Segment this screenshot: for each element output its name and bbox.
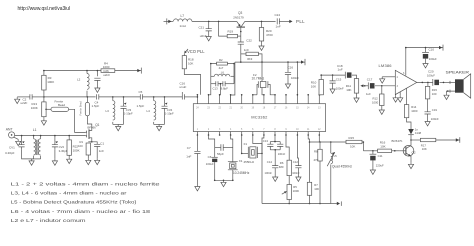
node rail terminal bbox=[140, 68, 142, 74]
svg-text:L1: L1 bbox=[33, 128, 37, 132]
trimmer CV1 bbox=[21, 136, 23, 142]
svg-text:680: 680 bbox=[279, 165, 284, 169]
capacitor C22 bbox=[240, 36, 242, 42]
svg-text:100K: 100K bbox=[293, 189, 300, 193]
svg-text:R8: R8 bbox=[314, 149, 318, 153]
ground bbox=[221, 180, 226, 186]
ground bbox=[41, 119, 46, 125]
svg-text:Q3: Q3 bbox=[238, 11, 242, 15]
svg-text:C14: C14 bbox=[267, 160, 273, 164]
wire pin7 long drop bbox=[262, 135, 264, 204]
wire B+ rail left bbox=[44, 70, 101, 72]
svg-text:1-10pF: 1-10pF bbox=[124, 111, 133, 115]
svg-text:100nF: 100nF bbox=[431, 117, 439, 121]
svg-text:4u7: 4u7 bbox=[219, 66, 224, 70]
capacitor C26 bbox=[96, 71, 98, 77]
resistor R9 bbox=[318, 135, 321, 149]
wire supply rail top bbox=[406, 47, 443, 49]
ground bbox=[370, 168, 375, 174]
capacitor C16b coupling bbox=[182, 94, 184, 99]
svg-text:1uF: 1uF bbox=[366, 92, 371, 96]
capacitor C6 bbox=[212, 156, 218, 158]
wire bbox=[192, 20, 237, 22]
resistor R2 bbox=[217, 62, 228, 65]
svg-text:1000: 1000 bbox=[103, 65, 110, 69]
node PLL out bbox=[289, 20, 292, 23]
capacitor C5 bbox=[140, 94, 142, 99]
svg-text:10K: 10K bbox=[188, 62, 193, 66]
svg-text:BF966: BF966 bbox=[88, 125, 97, 129]
ground bbox=[398, 96, 403, 102]
capacitor C8 56pF bbox=[215, 147, 221, 149]
wire bead to gate2 bbox=[69, 109, 86, 132]
wire pin stub top 24 bbox=[196, 95, 198, 104]
svg-text:100nF: 100nF bbox=[292, 171, 300, 175]
wire tank rail bbox=[99, 96, 141, 98]
wire squelch line bbox=[310, 141, 347, 143]
svg-text:100nF: 100nF bbox=[336, 86, 344, 90]
wire collector out bbox=[245, 20, 276, 22]
quad coil L5 bbox=[330, 142, 332, 153]
wire pin stub bottom 2 bbox=[208, 132, 210, 136]
ground bbox=[15, 97, 20, 103]
svg-text:C13: C13 bbox=[263, 139, 269, 143]
svg-text:PLL: PLL bbox=[296, 19, 305, 24]
capacitor C11 bbox=[372, 151, 374, 154]
ground bbox=[330, 87, 335, 93]
svg-text:1000: 1000 bbox=[372, 100, 379, 104]
resistor R20 bbox=[261, 21, 263, 27]
wire pin stub bottom 12 bbox=[318, 132, 320, 136]
inductor L2 choke bbox=[86, 71, 88, 74]
svg-text:L3: L3 bbox=[106, 109, 110, 113]
svg-text:3-30pF: 3-30pF bbox=[59, 149, 68, 153]
svg-text:6.8pF: 6.8pF bbox=[221, 87, 228, 91]
svg-text:100nF: 100nF bbox=[265, 171, 273, 175]
svg-text:220uF: 220uF bbox=[376, 163, 384, 167]
svg-text:L6: L6 bbox=[221, 71, 225, 75]
svg-text:1uF: 1uF bbox=[338, 68, 343, 72]
ground bbox=[285, 82, 290, 88]
svg-text:F1: F1 bbox=[244, 142, 248, 146]
wire pin stub bottom 8 bbox=[274, 132, 276, 136]
svg-text:100K: 100K bbox=[47, 80, 54, 84]
svg-text:100nF: 100nF bbox=[278, 152, 286, 156]
transistor Q1 BF966 bbox=[88, 129, 90, 139]
svg-text:C15: C15 bbox=[336, 77, 342, 81]
crystal F2 10.7MHz bbox=[253, 94, 257, 96]
svg-text:VCO PLL: VCO PLL bbox=[187, 49, 205, 54]
svg-text:Q2: Q2 bbox=[412, 150, 416, 154]
svg-text:X1: X1 bbox=[239, 159, 243, 163]
node VCO tank top wire bbox=[211, 63, 234, 65]
wire to R16 bbox=[363, 150, 377, 152]
svg-text:C24: C24 bbox=[275, 13, 281, 17]
potentiometer R5 squelch bbox=[288, 176, 290, 185]
svg-text:u22F: u22F bbox=[21, 101, 28, 105]
svg-text:LM386: LM386 bbox=[379, 63, 393, 68]
wire pin2/pin4 block bbox=[209, 135, 215, 157]
svg-text:C13: C13 bbox=[213, 87, 219, 91]
resistor R6 bbox=[286, 135, 289, 160]
resistor R21 3K3 bbox=[241, 53, 246, 55]
ferrite bead horizontal bbox=[45, 109, 47, 111]
wire pin stub bottom 3 bbox=[219, 132, 221, 136]
svg-text:1nF: 1nF bbox=[244, 48, 249, 52]
wire audio rail bbox=[321, 74, 345, 76]
svg-text:R15: R15 bbox=[349, 136, 355, 140]
wire pin stub top 14 bbox=[307, 95, 309, 104]
capacitor C17 bbox=[365, 85, 369, 87]
svg-text:4148: 4148 bbox=[415, 131, 422, 135]
svg-text:100: 100 bbox=[78, 144, 83, 148]
capacitor C14 bbox=[272, 166, 278, 168]
ground bbox=[52, 159, 57, 165]
resistor R4 bbox=[101, 69, 115, 73]
resistor R17 bbox=[411, 139, 420, 141]
op-amp U2 LM386 bbox=[395, 70, 417, 94]
crystal X1 10.245MHz bbox=[228, 162, 238, 170]
diode D1 1n4148 bbox=[408, 129, 414, 134]
svg-text:100K: 100K bbox=[73, 149, 80, 153]
node B+ terminal bbox=[164, 20, 174, 22]
trimmer CV3 bbox=[123, 103, 125, 106]
svg-text:100uF: 100uF bbox=[429, 57, 437, 61]
resistor R3 bbox=[43, 71, 45, 76]
resistor R22 bbox=[68, 136, 70, 140]
svg-text:SPEAKER: SPEAKER bbox=[446, 70, 470, 75]
capacitor C1 bbox=[92, 142, 97, 145]
wire pin stub top 17 bbox=[274, 95, 276, 104]
svg-text:1-10pF: 1-10pF bbox=[165, 111, 174, 115]
svg-text:1.5pF: 1.5pF bbox=[137, 104, 145, 108]
svg-text:1nF: 1nF bbox=[186, 155, 191, 159]
svg-text:100K: 100K bbox=[31, 106, 38, 110]
ground bbox=[296, 175, 301, 181]
wire pin stub top 15 bbox=[296, 95, 298, 104]
svg-text:56pF: 56pF bbox=[217, 152, 224, 156]
svg-text:100uF: 100uF bbox=[427, 73, 435, 77]
transistor Q3 bbox=[237, 26, 245, 28]
wire pin stub top 21 bbox=[230, 95, 232, 104]
wire pin stub bottom 7 bbox=[263, 132, 265, 136]
potentiometer R11 volume bbox=[354, 79, 358, 94]
wire pin stub bottom 9 bbox=[285, 132, 287, 136]
svg-text:455KHz: 455KHz bbox=[244, 160, 255, 164]
svg-text:100: 100 bbox=[432, 92, 437, 96]
svg-text:4700: 4700 bbox=[266, 33, 273, 37]
svg-text:3K3: 3K3 bbox=[247, 57, 253, 61]
svg-text:Quad 455KHz: Quad 455KHz bbox=[332, 164, 352, 168]
wire pin stub bottom 4 bbox=[230, 132, 232, 136]
wire pin stub bottom 11 bbox=[307, 132, 309, 136]
svg-text:C17: C17 bbox=[367, 77, 373, 81]
op-amp U1 MC3362 body bbox=[193, 104, 325, 132]
wire to pin10 bbox=[296, 62, 298, 95]
svg-text:1.5pF: 1.5pF bbox=[92, 104, 100, 108]
resistor R19 bbox=[219, 21, 228, 36]
svg-text:L4: L4 bbox=[147, 109, 151, 113]
wire pin stub top 23 bbox=[208, 95, 210, 104]
svg-text:10K: 10K bbox=[350, 145, 355, 149]
wire LM386 pin6 supply bbox=[405, 48, 407, 76]
svg-text:C6: C6 bbox=[208, 155, 212, 159]
node ANT connector bbox=[9, 132, 15, 138]
svg-text:10.7MHz: 10.7MHz bbox=[252, 77, 265, 81]
svg-text:u1uF: u1uF bbox=[180, 85, 187, 89]
svg-text:L1 - 2 + 2 voltas - 4mm diam -: L1 - 2 + 2 voltas - 4mm diam - nucleo fe… bbox=[11, 181, 161, 186]
trimmer CV2 bbox=[54, 136, 56, 142]
svg-text:C16: C16 bbox=[288, 65, 294, 69]
ground bbox=[67, 157, 72, 163]
wire pin stub top 16 bbox=[285, 95, 287, 104]
capacitor C7 bbox=[196, 135, 198, 151]
svg-text:ANT: ANT bbox=[6, 127, 13, 131]
svg-text:10K: 10K bbox=[422, 147, 427, 151]
svg-text:L2 e L7 - indutor comum: L2 e L7 - indutor comum bbox=[11, 218, 87, 223]
capacitor C24 bbox=[277, 18, 279, 24]
capacitor C12 bbox=[297, 135, 298, 166]
ground bbox=[380, 77, 385, 83]
capacitor C2 bbox=[30, 94, 32, 99]
resistor R7 bbox=[308, 135, 309, 182]
resistor R14 bbox=[406, 88, 408, 104]
svg-text:L5 - Bobina Detect Quadratura: L5 - Bobina Detect Quadratura 455KHz (To… bbox=[11, 200, 138, 205]
wire pin stub top 22 bbox=[219, 95, 221, 104]
svg-text:Ferrite Bead: Ferrite Bead bbox=[79, 101, 83, 116]
inductor L3 bbox=[112, 97, 114, 101]
capacitor C13 bbox=[211, 83, 216, 85]
ground bbox=[16, 139, 21, 145]
wire bias node line bbox=[44, 96, 96, 98]
svg-text:47K: 47K bbox=[314, 158, 319, 162]
wire pin stub bottom 10 bbox=[296, 132, 298, 136]
svg-text:1000: 1000 bbox=[411, 109, 418, 113]
wire pin stub top 13 bbox=[318, 95, 320, 104]
svg-text:u2nF: u2nF bbox=[103, 73, 110, 77]
ground bbox=[259, 44, 264, 50]
ground bbox=[206, 35, 211, 41]
svg-text:http://www.qsl.net/va3iul: http://www.qsl.net/va3iul bbox=[18, 6, 71, 12]
capacitor C20 bbox=[432, 79, 434, 86]
resistor R18 VCO bbox=[183, 54, 185, 56]
resistor R12 bbox=[381, 85, 383, 87]
wire antenna line bbox=[15, 135, 86, 137]
svg-text:6: 6 bbox=[403, 72, 405, 75]
svg-text:R2: R2 bbox=[219, 58, 223, 62]
ground bbox=[116, 124, 121, 130]
svg-text:10K: 10K bbox=[311, 84, 316, 88]
svg-text:L3, L4 - 6 voltas - 4mm diam -: L3, L4 - 6 voltas - 4mm diam - nucleo ar bbox=[11, 191, 128, 196]
wire pin stub top 20 bbox=[241, 95, 243, 104]
capacitor C19 bbox=[427, 99, 429, 112]
wire bottom rail bbox=[262, 203, 331, 205]
capacitor C15 bbox=[332, 75, 334, 81]
ground bbox=[354, 96, 359, 102]
svg-text:Bead: Bead bbox=[58, 103, 65, 107]
ground bbox=[379, 108, 384, 114]
wire LM386 pin2 ground bbox=[395, 94, 397, 95]
ground bbox=[425, 120, 430, 126]
ground bbox=[86, 158, 91, 164]
svg-text:C12: C12 bbox=[293, 160, 299, 164]
svg-text:3-30pF: 3-30pF bbox=[5, 151, 15, 155]
resistor R10 bbox=[319, 94, 321, 96]
wire LM386 pin4 ground bbox=[399, 92, 401, 96]
svg-text:R19: R19 bbox=[228, 30, 234, 34]
wire tank to pin bbox=[219, 84, 222, 95]
resistor R15b zobel bbox=[427, 82, 429, 86]
wire pin stub bottom 6 bbox=[252, 132, 254, 136]
transistor Q2 BC547b bbox=[410, 139, 412, 141]
wire tank1 ground bbox=[113, 123, 124, 125]
svg-text:L7: L7 bbox=[181, 14, 185, 18]
svg-text:L2: L2 bbox=[77, 78, 81, 82]
svg-text:L5: L5 bbox=[334, 154, 338, 158]
ground bbox=[195, 185, 200, 191]
wire tank2 ground bbox=[154, 123, 165, 125]
capacitor C21 bbox=[208, 21, 210, 28]
wire pin stub bottom 5 bbox=[241, 132, 243, 136]
svg-text:C5: C5 bbox=[139, 90, 143, 94]
svg-text:MC3362: MC3362 bbox=[251, 115, 268, 120]
svg-text:10K: 10K bbox=[380, 144, 385, 148]
ground bbox=[95, 158, 100, 164]
capacitor C10 bbox=[425, 48, 427, 53]
svg-text:Q1: Q1 bbox=[95, 123, 99, 127]
svg-text:1nF: 1nF bbox=[276, 25, 281, 29]
svg-text:10K: 10K bbox=[314, 187, 319, 191]
svg-text:100uF: 100uF bbox=[206, 162, 214, 166]
inductor L6 bbox=[211, 75, 215, 77]
svg-text:BC547b: BC547b bbox=[392, 139, 403, 143]
capacitor C4 bbox=[97, 94, 99, 99]
resistor R1 bbox=[91, 141, 93, 143]
ground bbox=[95, 86, 100, 92]
svg-text:u01F: u01F bbox=[200, 34, 207, 38]
svg-text:C19: C19 bbox=[432, 108, 438, 112]
wire pin stub bottom 1 bbox=[196, 132, 198, 136]
wire pin stub top 18 bbox=[263, 95, 265, 104]
svg-text:2N5179: 2N5179 bbox=[233, 16, 244, 20]
ground bbox=[273, 175, 278, 181]
svg-text:C1: C1 bbox=[100, 142, 104, 146]
node supply terminal bbox=[304, 59, 306, 65]
capacitor 6.8pF bbox=[223, 81, 225, 86]
wire L1 ground bbox=[34, 158, 41, 160]
svg-text:1mH: 1mH bbox=[180, 24, 186, 28]
ferrite bead vertical bbox=[86, 97, 88, 103]
svg-text:C21: C21 bbox=[199, 25, 205, 29]
trimmer CV4 bbox=[164, 103, 166, 106]
svg-text:C7: C7 bbox=[187, 146, 191, 150]
wire to pin7 bbox=[262, 62, 264, 95]
inductor L4 bbox=[153, 97, 155, 101]
resistor R15 bbox=[346, 140, 362, 143]
wire LM386 minus input bbox=[382, 76, 395, 78]
wire pin stub top 19 bbox=[252, 95, 254, 104]
svg-text:100nF: 100nF bbox=[291, 76, 299, 80]
ground bbox=[157, 124, 162, 130]
ground bbox=[393, 96, 398, 102]
ceramic filter F1 455KHz bbox=[241, 135, 243, 153]
wire pin2/4 ground bus bbox=[215, 179, 233, 181]
ground bbox=[423, 62, 428, 68]
svg-text:CV1: CV1 bbox=[9, 146, 15, 150]
inductor L7 bbox=[174, 19, 192, 22]
capacitor C16 decoupling bbox=[287, 62, 289, 72]
svg-text:L6 - 4 voltas - 7mm diam - nuc: L6 - 4 voltas - 7mm diam - nucleo ar - f… bbox=[11, 209, 152, 214]
svg-text:1nF: 1nF bbox=[99, 149, 104, 153]
wire varactor supply line bbox=[235, 61, 305, 63]
svg-text:C22: C22 bbox=[246, 39, 252, 43]
resistor R16 bbox=[378, 149, 392, 152]
wire LM386 output bbox=[417, 81, 433, 83]
node supply terminal right bbox=[442, 45, 444, 51]
resistor R13 bbox=[43, 97, 45, 102]
svg-text:10K: 10K bbox=[346, 88, 351, 92]
capacitor C13b loop bbox=[274, 135, 276, 142]
svg-text:C10: C10 bbox=[429, 48, 435, 52]
capacitor C18 bbox=[344, 72, 346, 79]
svg-text:10.245MHz: 10.245MHz bbox=[233, 171, 250, 175]
svg-text:C11: C11 bbox=[378, 154, 383, 158]
node meter terminal bbox=[459, 137, 461, 143]
